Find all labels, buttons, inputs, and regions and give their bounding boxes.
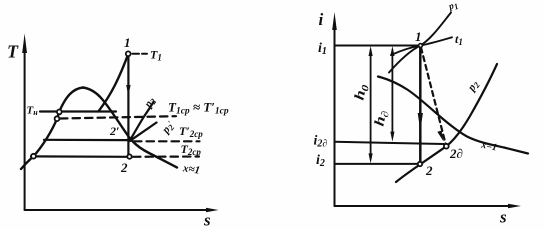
2' level dashed line <box>134 140 200 142</box>
label p2 (left) <box>142 94 159 111</box>
x=1 saturation line (right) <box>378 77 528 154</box>
label x=1 (right) <box>479 139 497 153</box>
svg-text:T1ср ≈ T′1ср: T1ср ≈ T′1ср <box>168 100 229 117</box>
svg-text:i2∂: i2∂ <box>314 134 328 150</box>
svg-text:p1: p1 <box>447 0 460 14</box>
arrow on 1-2d <box>437 131 443 142</box>
dashed actual process 1-2d <box>421 48 446 144</box>
bottom dashed line T2cp <box>133 155 199 158</box>
2' level solid line <box>44 139 130 142</box>
isobar p1 line (right) <box>389 13 451 73</box>
svg-text:T2ср: T2ср <box>181 142 202 157</box>
svg-text:1: 1 <box>124 35 131 50</box>
adiabat 1-2 vertical (right) <box>419 47 422 162</box>
h0 measuring line with arrows <box>369 46 373 163</box>
svg-text:s: s <box>203 211 211 230</box>
isobar p1 curve <box>99 54 129 111</box>
svg-text:T′2ср: T′2ср <box>179 124 203 139</box>
isobar p2 curve (right) <box>396 64 497 182</box>
svg-text:i1: i1 <box>318 41 327 57</box>
i2 level line <box>335 163 418 165</box>
point 2 (right) <box>418 162 422 166</box>
svg-text:i2: i2 <box>316 153 325 169</box>
svg-text:p2: p2 <box>465 78 482 95</box>
i axis <box>332 12 337 206</box>
svg-text:s: s <box>499 208 507 227</box>
T axis <box>22 34 27 211</box>
svg-text:T: T <box>7 42 19 62</box>
i2d level line <box>335 142 444 144</box>
svg-text:t1: t1 <box>455 32 463 47</box>
svg-text:x=1: x=1 <box>479 139 497 153</box>
svg-text:i: i <box>319 10 324 29</box>
saturation dome left branch <box>21 88 83 170</box>
label p1 (right) <box>447 0 460 14</box>
svg-text:h∂: h∂ <box>372 109 391 128</box>
s axis (left) <box>25 208 219 212</box>
point 2' <box>128 138 132 142</box>
i1 level line <box>335 45 420 47</box>
isobar p2 <box>131 102 154 140</box>
isobar p2' <box>132 123 157 140</box>
svg-text:h0: h0 <box>352 83 371 102</box>
isotherm t1 line <box>391 37 452 55</box>
point 2d <box>444 144 449 149</box>
svg-text:T1: T1 <box>150 48 162 63</box>
svg-text:1: 1 <box>415 29 422 44</box>
svg-text:2: 2 <box>425 163 433 178</box>
isotherm TH solid line <box>40 110 116 112</box>
circle on dome at TH <box>57 110 62 115</box>
leader dash to T1 <box>133 53 148 55</box>
svg-text:2∂: 2∂ <box>449 146 463 161</box>
hd measuring line with arrows <box>390 46 394 142</box>
circle on dome bottom left <box>31 154 36 159</box>
s axis (right) <box>335 204 522 208</box>
svg-text:Tн: Tн <box>27 105 39 118</box>
svg-text:p2′: p2′ <box>159 119 177 137</box>
dashed line T1cp level <box>60 116 176 118</box>
svg-text:2: 2 <box>120 160 128 175</box>
label x≈1 (left) <box>181 162 201 177</box>
adiabat 1-2 vertical line <box>127 56 129 155</box>
svg-text:p2: p2 <box>142 94 159 111</box>
point 1 <box>126 51 131 56</box>
svg-text:x≈1: x≈1 <box>181 162 201 177</box>
arrow on 1-2 (right) <box>418 113 423 131</box>
point 2 (left) <box>127 154 131 158</box>
circle on dome below TH <box>55 116 60 121</box>
bottom isotherm T2cp solid line <box>31 155 130 158</box>
svg-text:2′: 2′ <box>109 124 119 138</box>
arrow on adiabat 1-2 <box>126 85 130 96</box>
label p2' <box>159 119 177 137</box>
label hd <box>372 109 391 128</box>
saturation dome right branch and x=1 line <box>83 88 177 168</box>
label h0 <box>352 83 371 102</box>
point 1 (right) <box>419 44 423 48</box>
label p2 (right) <box>465 78 482 95</box>
